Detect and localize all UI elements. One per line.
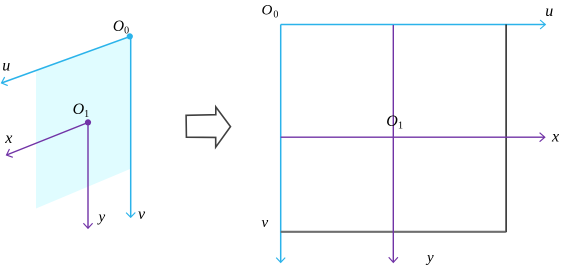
image rectangle right edge	[505, 25, 507, 233]
svg-text:v: v	[138, 206, 146, 223]
image rectangle bottom edge	[281, 231, 506, 233]
y axis (left figure)	[83, 123, 92, 229]
image plane (left figure shaded quadrilateral)	[36, 37, 130, 209]
svg-text:x: x	[551, 129, 559, 146]
svg-text:y: y	[97, 210, 106, 226]
x axis (left figure)	[7, 123, 89, 158]
svg-text:u: u	[2, 58, 10, 75]
origin point O0 (left figure dot)	[127, 33, 133, 39]
v axis (right figure)	[276, 25, 285, 263]
svg-text:x: x	[4, 130, 12, 147]
u axis (left figure)	[2, 37, 131, 86]
x axis (right figure)	[281, 133, 545, 142]
svg-text:y: y	[425, 250, 434, 266]
svg-text:O0: O0	[262, 3, 279, 21]
u axis (right figure)	[281, 20, 546, 29]
block arrow (transformation)	[186, 107, 230, 147]
svg-text:u: u	[545, 3, 553, 20]
v axis (left figure)	[126, 37, 135, 218]
svg-text:O1: O1	[386, 113, 403, 132]
origin point O1 (left figure dot)	[85, 119, 91, 125]
svg-text:v: v	[262, 215, 269, 231]
y axis (right figure)	[389, 25, 398, 262]
svg-text:O0: O0	[113, 18, 129, 37]
